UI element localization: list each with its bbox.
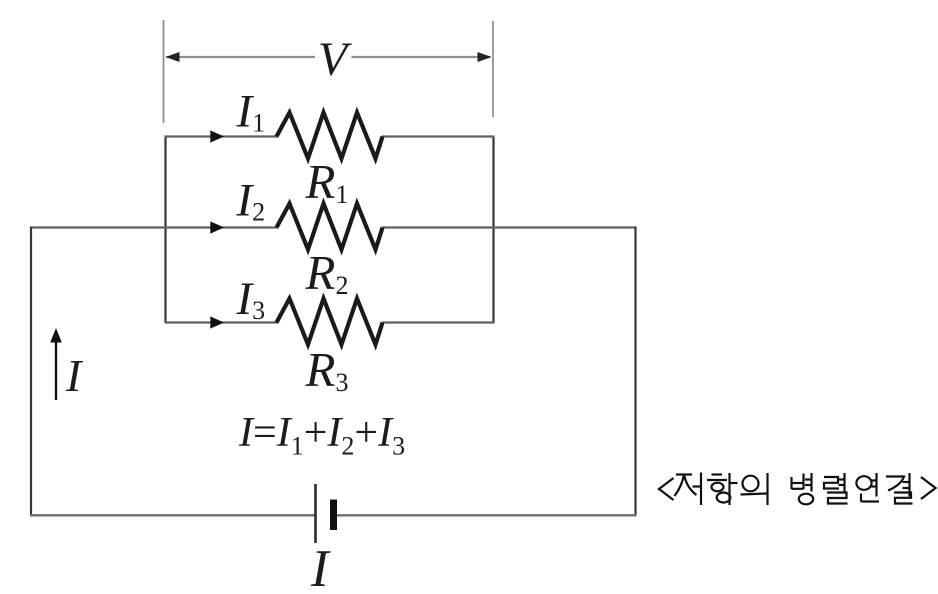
wire bottom right (from battery)	[334, 514, 637, 516]
wire bottom left (to battery)	[30, 514, 315, 516]
caption syllable 렬	[824, 473, 848, 504]
caption syllable 병	[792, 473, 814, 504]
wire branch1 left	[165, 135, 279, 137]
wire outer left vertical	[30, 227, 32, 517]
dimension arrowhead left	[166, 52, 180, 62]
node junction left (inner-left vertical wire)	[164, 137, 166, 324]
svg-text:V: V	[318, 33, 352, 86]
extension line left (for V dimension)	[163, 20, 165, 123]
svg-text:I3: I3	[236, 273, 266, 325]
wire branch3 right	[382, 321, 495, 323]
wire outer right vertical	[634, 227, 636, 517]
dimension line left segment	[166, 56, 315, 58]
svg-text:I: I	[65, 350, 84, 401]
current arrow I2	[210, 221, 224, 233]
caption bracket right >	[921, 477, 936, 499]
dimension line right segment	[352, 56, 491, 58]
resistor R1	[277, 113, 383, 159]
caption syllable 결	[886, 473, 913, 504]
wire branch2 right (to outer loop)	[382, 226, 637, 228]
svg-text:I1: I1	[236, 86, 266, 138]
svg-text:R3: R3	[305, 342, 349, 397]
caption bracket left <	[659, 478, 674, 500]
svg-text:I2: I2	[236, 175, 266, 227]
battery plate short (negative)	[330, 500, 337, 531]
current arrow I (left side)	[55, 340, 57, 400]
dimension arrowhead right	[478, 52, 492, 62]
caption syllable 저	[675, 473, 702, 506]
resistor R3	[277, 299, 383, 345]
current arrow I1	[210, 130, 224, 142]
wire branch3 left	[165, 321, 279, 323]
current arrow I3	[210, 316, 224, 328]
node junction right (inner-right vertical wire)	[492, 137, 494, 324]
svg-text:I: I	[310, 540, 331, 594]
extension line right (for V dimension)	[492, 21, 494, 117]
caption syllable 항	[707, 473, 738, 505]
battery plate long (positive)	[314, 484, 317, 543]
resistor R2	[277, 204, 383, 250]
wire branch1 right	[382, 135, 495, 137]
wire branch2 left (to outer loop)	[31, 226, 278, 228]
svg-text:I=I1+I2+I3: I=I1+I2+I3	[238, 410, 405, 461]
caption syllable 의	[741, 473, 768, 505]
caption syllable 연	[856, 473, 879, 502]
